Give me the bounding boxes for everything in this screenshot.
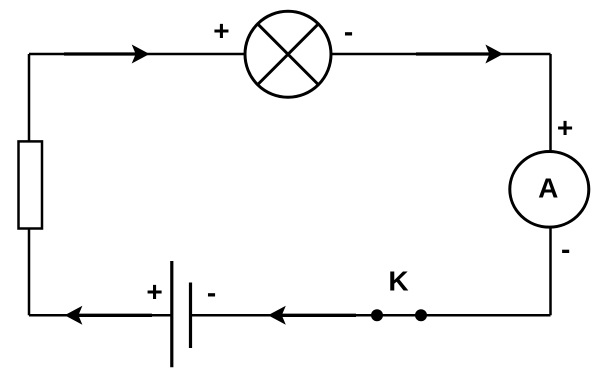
svg-text:-: - bbox=[344, 16, 353, 47]
svg-text:+: + bbox=[213, 15, 229, 46]
switch K contact dot left bbox=[371, 309, 383, 321]
current arrow bottom-right head bbox=[268, 306, 286, 325]
wire top-right segment bbox=[332, 53, 551, 56]
svg-text:-: - bbox=[207, 277, 216, 308]
current arrow bottom-left head bbox=[65, 306, 83, 325]
svg-text:+: + bbox=[557, 112, 573, 143]
svg-text:-: - bbox=[561, 233, 570, 264]
ammeter U1 circle bbox=[510, 152, 589, 228]
current arrow top-right head bbox=[485, 45, 503, 64]
current arrow top-left head bbox=[132, 45, 150, 64]
switch K contact dot right bbox=[415, 309, 427, 321]
lamp L1 cross line 2 bbox=[257, 24, 318, 85]
lamp L1 circle bbox=[245, 11, 331, 97]
wire right upper segment bbox=[549, 54, 552, 152]
wire bottom-right segment bbox=[191, 314, 551, 317]
battery B1 positive plate (long) bbox=[170, 261, 173, 367]
resistor R1 body bbox=[19, 141, 43, 228]
current arrow bottom-left shaft bbox=[74, 314, 152, 317]
svg-text:A: A bbox=[538, 172, 558, 203]
wire left lower segment bbox=[28, 229, 31, 316]
svg-text:+: + bbox=[146, 276, 162, 307]
battery B1 negative plate (short) bbox=[189, 283, 192, 349]
wire top-left segment bbox=[29, 53, 244, 56]
current arrow bottom-right shaft bbox=[277, 314, 356, 317]
svg-text:K: K bbox=[388, 265, 408, 296]
wire right lower segment bbox=[549, 227, 552, 315]
lamp L1 cross line 1 bbox=[257, 24, 318, 85]
wire bottom-left segment bbox=[29, 314, 172, 317]
current arrow top-right shaft bbox=[416, 52, 494, 55]
wire left upper segment bbox=[28, 54, 31, 141]
current arrow top-left shaft bbox=[64, 52, 140, 55]
